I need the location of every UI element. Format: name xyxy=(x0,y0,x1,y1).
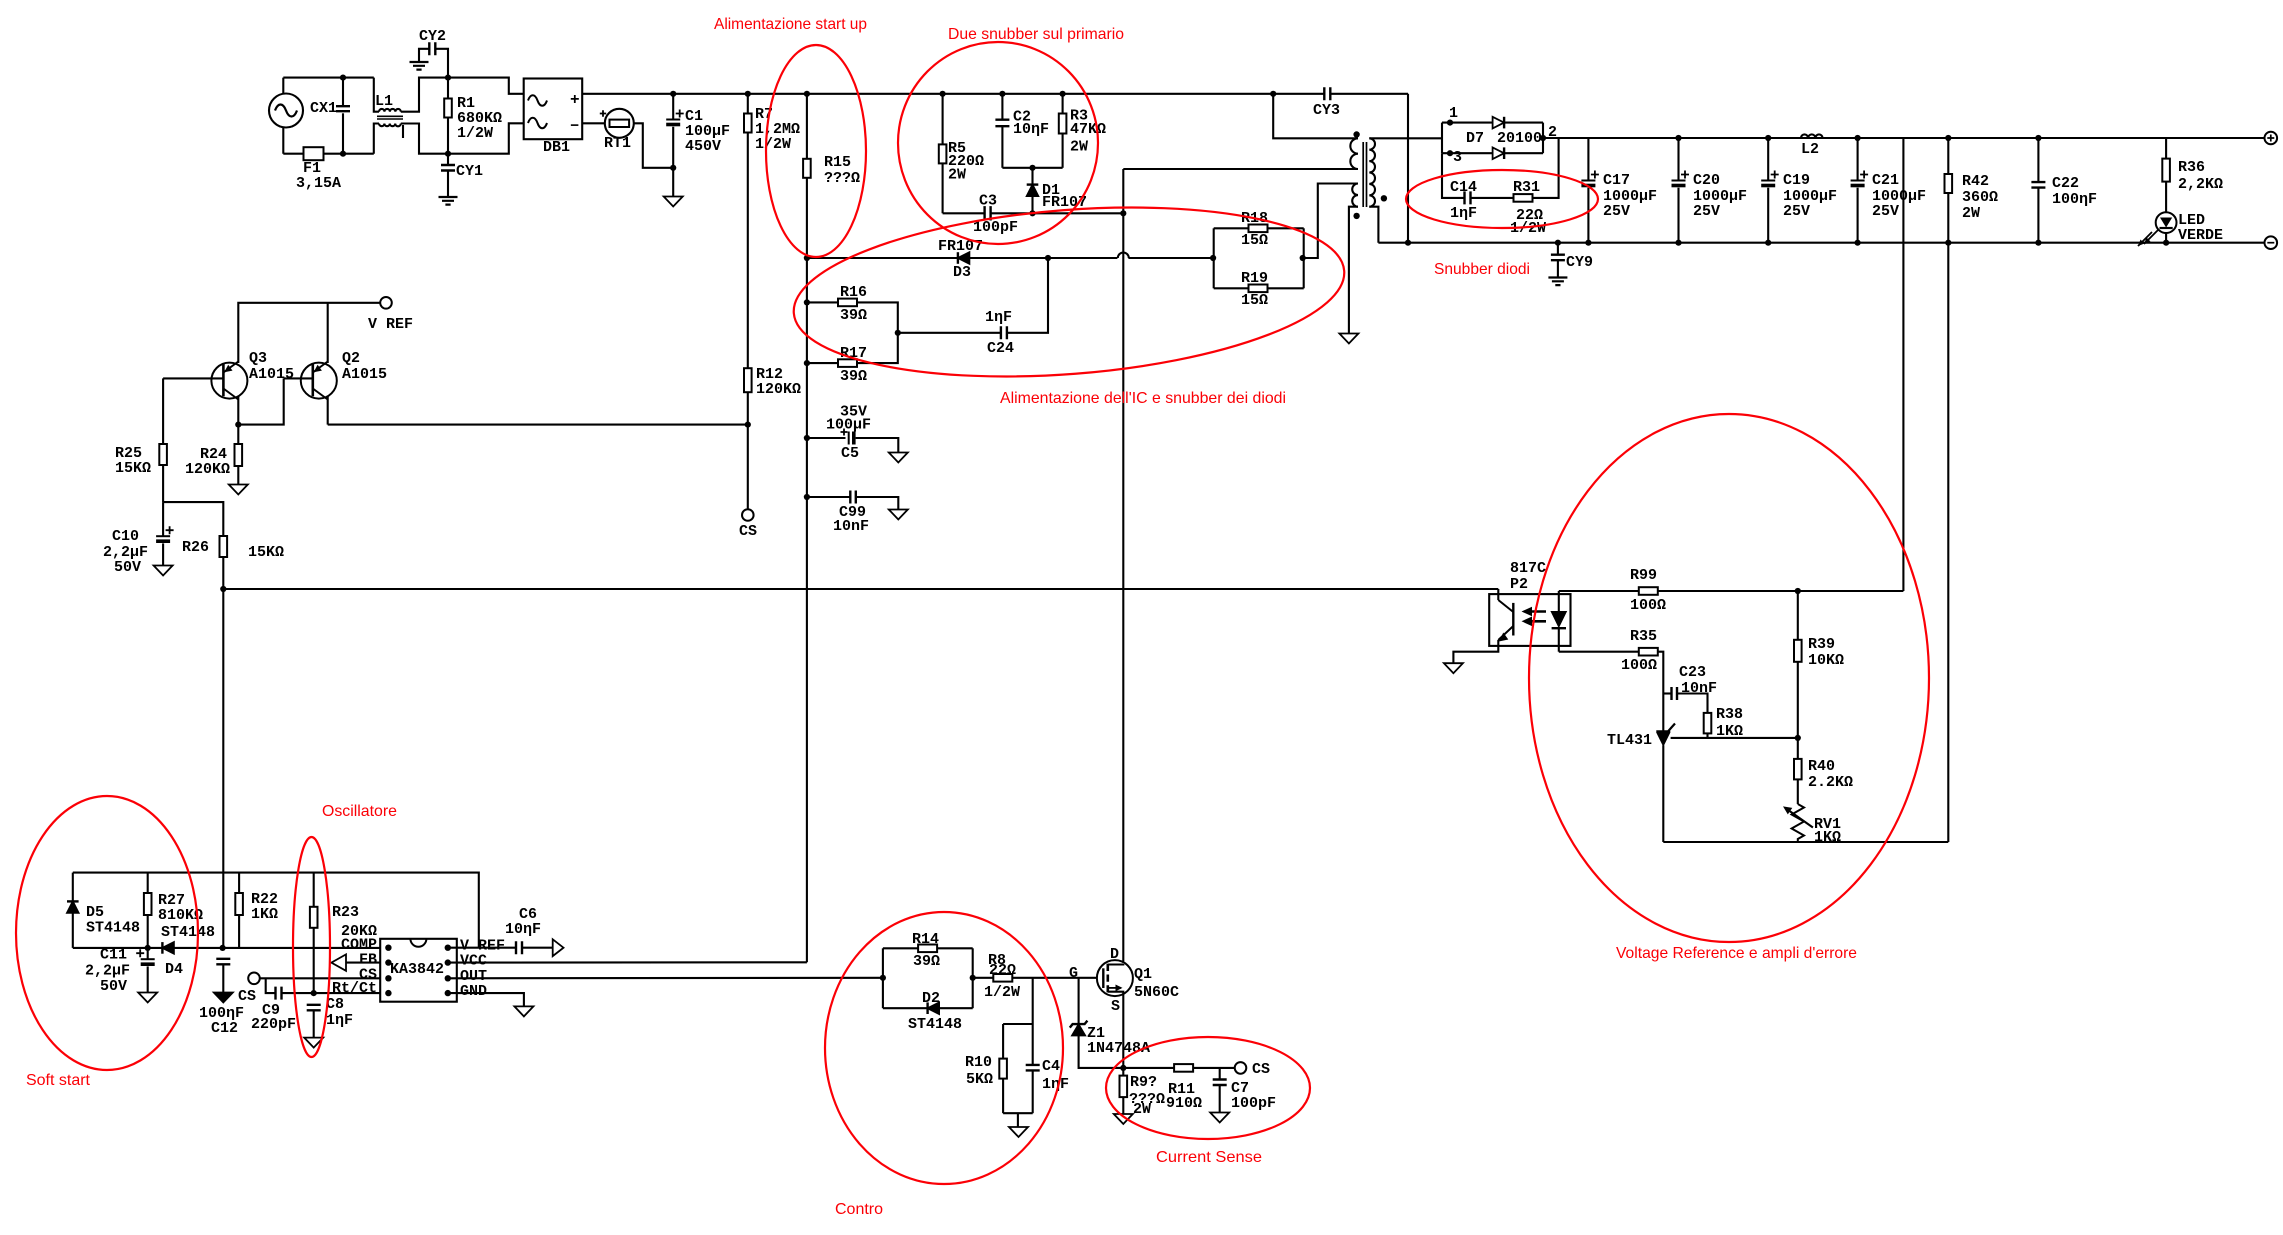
node R8 left xyxy=(970,975,976,981)
svg-text:C4: C4 xyxy=(1042,1058,1060,1075)
node R14/D2 left xyxy=(880,975,886,981)
terminal output + xyxy=(2265,132,2278,145)
wire input loop bottom xyxy=(283,153,374,155)
bridge rectifier DB1 xyxy=(524,79,583,140)
svg-text:D5: D5 xyxy=(86,904,104,921)
node D7 output xyxy=(1540,135,1546,141)
svg-text:120KΩ: 120KΩ xyxy=(756,381,801,398)
svg-text:1ηF: 1ηF xyxy=(1450,205,1477,222)
annotation ellipse oscillatore xyxy=(293,837,330,1057)
resistor R36 xyxy=(2165,138,2167,159)
svg-text:1N4748A: 1N4748A xyxy=(1087,1040,1150,1057)
node D3 anode xyxy=(1045,255,1051,261)
resistor R14 / diode D2 parallel xyxy=(882,948,884,1008)
svg-text:CS: CS xyxy=(238,988,256,1005)
svg-text:D3: D3 xyxy=(953,264,971,281)
svg-text:C20: C20 xyxy=(1693,172,1720,189)
capacitor C10 (electrolytic) xyxy=(162,502,164,536)
svg-text:1/2W: 1/2W xyxy=(984,984,1020,1001)
resistor R18 / R19 parallel block xyxy=(1210,255,1216,261)
MOSFET Q1 5N60C xyxy=(1097,960,1133,996)
svg-text:25V: 25V xyxy=(1783,203,1810,220)
capacitor C22 xyxy=(2035,135,2041,141)
svg-text:100ηF: 100ηF xyxy=(2052,191,2097,208)
ground W2 (triangle) xyxy=(1339,334,1358,344)
svg-text:10nF: 10nF xyxy=(833,518,869,535)
transformer core xyxy=(1363,142,1366,207)
AC source G1 xyxy=(282,78,284,154)
wire CY3 to secondary minus xyxy=(1407,94,1409,243)
svg-text:R36: R36 xyxy=(2178,159,2205,176)
svg-text:360Ω: 360Ω xyxy=(1962,189,1998,206)
svg-text:Alimentazione dell'IC e snubbe: Alimentazione dell'IC e snubber dei diod… xyxy=(1000,390,1286,407)
terminal CS (oscillator) xyxy=(248,973,260,985)
dual diode D7 20100 xyxy=(1441,123,1443,154)
capacitor C24 xyxy=(895,330,901,336)
wire snubber bottom (R5-C3-D1-drain) xyxy=(943,212,985,214)
capacitor C9 xyxy=(266,978,276,993)
svg-text:100Ω: 100Ω xyxy=(1630,597,1666,614)
capacitor C12 xyxy=(216,959,230,965)
svg-text:50V: 50V xyxy=(114,559,141,576)
ground R9 (triangle) xyxy=(1114,1114,1133,1124)
svg-text:100pF: 100pF xyxy=(1231,1095,1276,1112)
node R18/R19 right xyxy=(1300,255,1306,261)
fuse F1 xyxy=(304,147,324,160)
diode D4 ST4148 xyxy=(162,942,174,954)
wire reference bottom xyxy=(1663,841,1948,843)
svg-text:5KΩ: 5KΩ xyxy=(966,1071,993,1088)
svg-text:Q1: Q1 xyxy=(1134,966,1152,983)
wire source to CS xyxy=(1123,1067,1174,1069)
resistor R11 xyxy=(1174,1064,1193,1072)
capacitor CY1 xyxy=(447,154,449,165)
resistor R25 xyxy=(162,378,164,444)
ground C10 (triangle) xyxy=(154,566,173,576)
transistor Q2 A1015 xyxy=(327,303,329,363)
trimmer RV1 xyxy=(1792,804,1804,842)
svg-text:817C: 817C xyxy=(1510,560,1546,577)
svg-text:S: S xyxy=(1111,998,1120,1015)
annotation ellipse start up xyxy=(766,45,866,257)
capacitor C17 xyxy=(1587,138,1589,180)
svg-text:L1: L1 xyxy=(375,93,393,110)
transformer secondary winding W3 xyxy=(1369,137,1442,139)
svg-text:TL431: TL431 xyxy=(1607,732,1652,749)
svg-text:V REF: V REF xyxy=(368,316,413,333)
svg-text:C10: C10 xyxy=(112,528,139,545)
svg-text:D7: D7 xyxy=(1466,130,1484,147)
node R99/R39 xyxy=(1795,588,1801,594)
svg-text:2,2µF: 2,2µF xyxy=(85,963,130,980)
wire VREF pin xyxy=(448,947,516,949)
svg-text:C22: C22 xyxy=(2052,175,2079,192)
wire R25 to R26 xyxy=(163,502,223,536)
wire RtCt to IC xyxy=(314,992,381,994)
svg-text:Rt/Ct: Rt/Ct xyxy=(332,980,377,997)
svg-text:20100: 20100 xyxy=(1497,130,1542,147)
svg-text:+: + xyxy=(570,91,580,109)
IC pin dots xyxy=(385,945,391,951)
VREF arrow xyxy=(553,939,564,956)
ground CY2 (earth) xyxy=(410,62,429,70)
svg-text:Voltage Reference e ampli d'er: Voltage Reference e ampli d'errore xyxy=(1616,945,1857,962)
wire GND pin xyxy=(448,993,524,1006)
svg-text:R39: R39 xyxy=(1808,636,1835,653)
thermistor RT1 xyxy=(582,122,605,124)
wire input loop top xyxy=(283,77,374,79)
svg-text:1ηF: 1ηF xyxy=(985,309,1012,326)
sense - column xyxy=(1947,243,1949,842)
output - rail xyxy=(1378,242,2264,244)
svg-text:RT1: RT1 xyxy=(604,135,631,152)
svg-text:R17: R17 xyxy=(840,345,867,362)
resistor R3 xyxy=(1060,91,1066,97)
svg-text:A1015: A1015 xyxy=(249,366,294,383)
svg-text:Snubber diodi: Snubber diodi xyxy=(1434,261,1530,278)
svg-text:C5: C5 xyxy=(841,445,859,462)
svg-text:C23: C23 xyxy=(1679,664,1706,681)
resistor R17 xyxy=(807,362,838,364)
inductor L2 xyxy=(1801,134,1823,138)
svg-text:1ηF: 1ηF xyxy=(326,1012,353,1029)
svg-text:1ηF: 1ηF xyxy=(1042,1076,1069,1093)
svg-text:C17: C17 xyxy=(1603,172,1630,189)
annotation ellipse voltage reference xyxy=(1529,414,1929,942)
svg-text:−: − xyxy=(570,118,579,135)
svg-text:R42: R42 xyxy=(1962,173,1989,190)
capacitor C11 (electrolytic) xyxy=(147,948,149,959)
svg-text:5N60C: 5N60C xyxy=(1134,984,1179,1001)
output + rail xyxy=(1543,137,2265,139)
svg-text:25V: 25V xyxy=(1693,203,1720,220)
phase dot W1 xyxy=(1353,131,1359,137)
node feedback line xyxy=(220,586,226,592)
capacitor C1 (electrolytic) xyxy=(670,91,676,97)
svg-text:50V: 50V xyxy=(100,978,127,995)
annotation ellipse snubber diodi xyxy=(1406,170,1598,228)
wire COMP line xyxy=(73,947,380,949)
resistor R38 xyxy=(1704,713,1712,734)
svg-text:C11: C11 xyxy=(100,947,127,964)
svg-text:3,15A: 3,15A xyxy=(296,175,341,192)
svg-text:CY1: CY1 xyxy=(456,163,483,180)
svg-text:R15: R15 xyxy=(824,154,851,171)
svg-text:R23: R23 xyxy=(332,904,359,921)
node Q1 source xyxy=(1120,1065,1126,1071)
capacitor C2 xyxy=(999,91,1005,97)
wire C2/R3 bottom xyxy=(1002,167,1062,169)
transformer aux winding W2 xyxy=(1352,184,1358,207)
annotation ellipse due snubber xyxy=(898,42,1098,244)
resistor R39 xyxy=(1797,591,1799,640)
main HV rail xyxy=(673,93,1273,95)
resistor R99 xyxy=(1559,590,1639,592)
svg-text:R38: R38 xyxy=(1716,706,1743,723)
svg-text:R99: R99 xyxy=(1630,567,1657,584)
node C12 xyxy=(220,945,226,951)
svg-text:Q2: Q2 xyxy=(342,350,360,367)
svg-text:D2: D2 xyxy=(922,990,940,1007)
resistor R24 xyxy=(237,425,239,444)
node CY2 junction xyxy=(445,75,451,81)
snubber C14 R31 xyxy=(1442,153,1465,198)
svg-text:10KΩ: 10KΩ xyxy=(1808,652,1844,669)
svg-text:120KΩ: 120KΩ xyxy=(185,461,230,478)
terminal CS (current sense) xyxy=(1235,1062,1247,1074)
ground C5 (triangle) xyxy=(889,453,908,463)
capacitor CY9 xyxy=(1555,240,1561,246)
svg-text:10nF: 10nF xyxy=(1681,680,1717,697)
svg-text:25V: 25V xyxy=(1603,203,1630,220)
transformer primary winding W1 xyxy=(1273,94,1358,139)
svg-text:450V: 450V xyxy=(685,138,721,155)
node D1 top xyxy=(1029,165,1035,171)
svg-text:Alimentazione start up: Alimentazione start up xyxy=(714,16,867,33)
annotation ellipse soft start xyxy=(16,796,198,1070)
svg-text:Oscillatore: Oscillatore xyxy=(322,803,397,820)
svg-text:22Ω: 22Ω xyxy=(989,962,1016,979)
capacitor CX1 xyxy=(342,78,344,106)
svg-text:15Ω: 15Ω xyxy=(1241,232,1268,249)
node divider xyxy=(1795,735,1801,741)
svg-text:R10: R10 xyxy=(965,1054,992,1071)
svg-text:15KΩ: 15KΩ xyxy=(115,460,151,477)
svg-text:???Ω: ???Ω xyxy=(824,170,860,187)
svg-text:Current Sense: Current Sense xyxy=(1156,1149,1262,1166)
resistor R35 xyxy=(1559,651,1639,653)
svg-text:ST4148: ST4148 xyxy=(86,920,140,937)
phase dot W2 xyxy=(1353,213,1359,219)
svg-text:R9?: R9? xyxy=(1130,1074,1157,1091)
resistor R27 xyxy=(147,873,149,893)
resistor R15 xyxy=(804,91,810,97)
resistor R26 xyxy=(220,536,228,557)
ground C7 (triangle) xyxy=(1210,1113,1229,1123)
svg-text:C24: C24 xyxy=(987,340,1014,357)
svg-text:100Ω: 100Ω xyxy=(1621,657,1657,674)
svg-text:KA3842: KA3842 xyxy=(390,961,444,978)
annotation ellipse current sense xyxy=(1106,1037,1310,1139)
ground C12 (filled triangle) xyxy=(214,993,233,1003)
node CY3 branch xyxy=(1270,91,1276,97)
resistor R22 xyxy=(238,873,240,893)
IC U1 KA3842 xyxy=(380,939,457,1002)
svg-text:L2: L2 xyxy=(1801,141,1819,158)
annotation ellipse alimentazione IC xyxy=(788,189,1351,395)
resistor R16 xyxy=(807,301,838,303)
ground C1 (triangle) xyxy=(664,197,683,207)
TL431 U2 xyxy=(1656,724,1675,732)
svg-text:Q3: Q3 xyxy=(249,350,267,367)
svg-text:2,2KΩ: 2,2KΩ xyxy=(2178,176,2223,193)
opto light arrows xyxy=(1528,612,1546,622)
svg-text:C19: C19 xyxy=(1783,172,1810,189)
svg-text:39Ω: 39Ω xyxy=(913,953,940,970)
svg-text:ST4148: ST4148 xyxy=(908,1016,962,1033)
terminal V REF xyxy=(380,297,392,309)
inductor L1 (common-mode choke) xyxy=(374,78,379,112)
svg-text:15Ω: 15Ω xyxy=(1241,292,1268,309)
svg-text:R26: R26 xyxy=(182,539,209,556)
wire jump over drain xyxy=(1118,253,1129,259)
terminal output - xyxy=(2265,236,2278,249)
svg-text:47KΩ: 47KΩ xyxy=(1070,121,1106,138)
ground CY9 (earth) xyxy=(1548,278,1567,286)
resistor R42 xyxy=(1945,135,1951,141)
wire OUT pin xyxy=(448,977,883,980)
svg-text:G: G xyxy=(1069,965,1078,982)
ground opto (triangle) xyxy=(1444,663,1463,673)
wire VREF rail xyxy=(238,303,380,363)
svg-text:R19: R19 xyxy=(1241,270,1268,287)
resistor R7 xyxy=(745,91,751,97)
svg-text:1KΩ: 1KΩ xyxy=(251,906,278,923)
sense + column xyxy=(1902,138,1904,591)
capacitor C4 / resistor R10 xyxy=(1032,978,1034,1024)
svg-text:10ηF: 10ηF xyxy=(505,921,541,938)
wire long feedback line to opto xyxy=(223,588,1498,590)
svg-text:R14: R14 xyxy=(912,931,939,948)
drain column xyxy=(1122,169,1124,964)
svg-text:3: 3 xyxy=(1453,149,1462,166)
annotation ellipse controllo xyxy=(825,912,1063,1184)
resistor R1 xyxy=(447,78,449,99)
svg-text:GND: GND xyxy=(460,983,487,1000)
FB pin arrow xyxy=(346,962,380,964)
svg-text:Due snubber sul primario: Due snubber sul primario xyxy=(948,26,1124,43)
svg-text:VCC: VCC xyxy=(460,953,487,970)
svg-text:Contro: Contro xyxy=(835,1201,883,1218)
node R12/Q2 junction xyxy=(745,422,751,428)
svg-text:100µF: 100µF xyxy=(826,417,871,434)
resistor R12 xyxy=(744,368,752,392)
wire to DB1 bottom xyxy=(448,123,524,153)
diode D3 FR107 xyxy=(958,252,970,264)
svg-text:CS: CS xyxy=(1252,1061,1270,1078)
svg-text:CX1: CX1 xyxy=(310,100,337,117)
capacitor C99 xyxy=(807,496,850,498)
svg-text:Soft start: Soft start xyxy=(26,1072,91,1089)
resistor R23 xyxy=(313,873,315,907)
phase dot W3 xyxy=(1381,195,1387,201)
node CX1 top junction xyxy=(340,75,346,81)
capacitor CY3 xyxy=(1273,93,1324,95)
svg-text:R16: R16 xyxy=(840,284,867,301)
capacitor C20 xyxy=(1675,135,1681,141)
ground R24 (triangle) xyxy=(229,485,248,495)
svg-text:VERDE: VERDE xyxy=(2178,227,2223,244)
LED VERDE xyxy=(2156,212,2177,233)
wire Q2 base to Q3 collector xyxy=(238,378,283,424)
wire TL431 ref line xyxy=(1671,737,1798,739)
capacitor C7 xyxy=(1219,1068,1221,1079)
svg-text:C3: C3 xyxy=(979,193,997,210)
transistor Q3 A1015 xyxy=(237,394,239,425)
capacitor C19 xyxy=(1765,135,1771,141)
capacitor C23 xyxy=(1663,692,1671,694)
svg-text:15KΩ: 15KΩ xyxy=(248,544,284,561)
svg-text:C21: C21 xyxy=(1872,172,1899,189)
terminal CS (R12 bottom) xyxy=(742,509,754,521)
wire CS to IC xyxy=(260,977,380,979)
capacitor C6 xyxy=(516,941,522,954)
opto transistor xyxy=(1497,589,1499,600)
resistor R9 xyxy=(1122,1068,1124,1076)
diode D1 FR107 xyxy=(1031,168,1033,185)
svg-text:220pF: 220pF xyxy=(251,1016,296,1033)
node C11 xyxy=(145,945,151,951)
svg-text:R31: R31 xyxy=(1513,179,1540,196)
svg-text:2.2KΩ: 2.2KΩ xyxy=(1808,774,1853,791)
svg-text:910Ω: 910Ω xyxy=(1166,1095,1202,1112)
capacitor C21 xyxy=(1855,135,1861,141)
svg-text:DB1: DB1 xyxy=(543,139,570,156)
svg-text:P2: P2 xyxy=(1510,576,1528,593)
svg-text:25V: 25V xyxy=(1872,203,1899,220)
svg-text:2W: 2W xyxy=(1133,1101,1151,1118)
svg-text:C14: C14 xyxy=(1450,179,1477,196)
node CY1 junction xyxy=(445,151,451,157)
svg-text:D4: D4 xyxy=(165,961,183,978)
svg-text:ST4148: ST4148 xyxy=(161,924,215,941)
ground C8 (triangle) xyxy=(304,1038,323,1048)
ground C11 (triangle) xyxy=(138,993,157,1003)
wire Q2 collector line xyxy=(328,424,748,426)
svg-text:R35: R35 xyxy=(1630,628,1657,645)
svg-text:CY2: CY2 xyxy=(419,28,446,45)
svg-text:CY9: CY9 xyxy=(1566,254,1593,271)
svg-text:C12: C12 xyxy=(211,1020,238,1037)
ground IC GND (triangle) xyxy=(514,1006,533,1016)
svg-text:CS: CS xyxy=(739,523,757,540)
svg-text:2W: 2W xyxy=(948,167,966,184)
svg-text:D: D xyxy=(1110,946,1119,963)
ground CY1 (earth) xyxy=(439,197,458,205)
VCC node dots xyxy=(804,255,810,261)
svg-text:R40: R40 xyxy=(1808,758,1835,775)
svg-text:10ηF: 10ηF xyxy=(1013,121,1049,138)
svg-text:1/2W: 1/2W xyxy=(755,136,791,153)
wire COMP/VREF rail xyxy=(73,873,479,948)
node Q3 collector xyxy=(235,422,241,428)
svg-text:1: 1 xyxy=(1449,105,1458,122)
svg-text:39Ω: 39Ω xyxy=(840,368,867,385)
svg-text:2W: 2W xyxy=(1070,139,1088,156)
capacitor CY2 xyxy=(435,49,448,78)
svg-text:CY3: CY3 xyxy=(1313,102,1340,119)
ground R10/C4 (triangle) xyxy=(1009,1127,1028,1137)
diode D5 ST4148 xyxy=(72,873,74,902)
wire RT1 to C1 bottom xyxy=(634,123,673,168)
svg-text:1KΩ: 1KΩ xyxy=(1814,829,1841,846)
svg-text:A1015: A1015 xyxy=(342,366,387,383)
node CX1 bottom junction xyxy=(340,151,346,157)
wire DB1 + output rail xyxy=(582,93,673,95)
wire VCC-D3 line xyxy=(807,257,958,259)
capacitor C5 (electrolytic) xyxy=(807,437,846,439)
svg-text:2W: 2W xyxy=(1962,205,1980,222)
svg-text:1/2W: 1/2W xyxy=(457,125,493,142)
capacitor C8 xyxy=(307,1005,321,1011)
ground C99 (triangle) xyxy=(889,510,908,520)
svg-text:39Ω: 39Ω xyxy=(840,307,867,324)
resistor R8 xyxy=(973,977,994,979)
resistor R40 xyxy=(1797,738,1799,759)
wire VCC pin to VCC column xyxy=(448,961,807,963)
resistor R5 xyxy=(940,91,946,97)
node Rt/Ct xyxy=(311,990,317,996)
